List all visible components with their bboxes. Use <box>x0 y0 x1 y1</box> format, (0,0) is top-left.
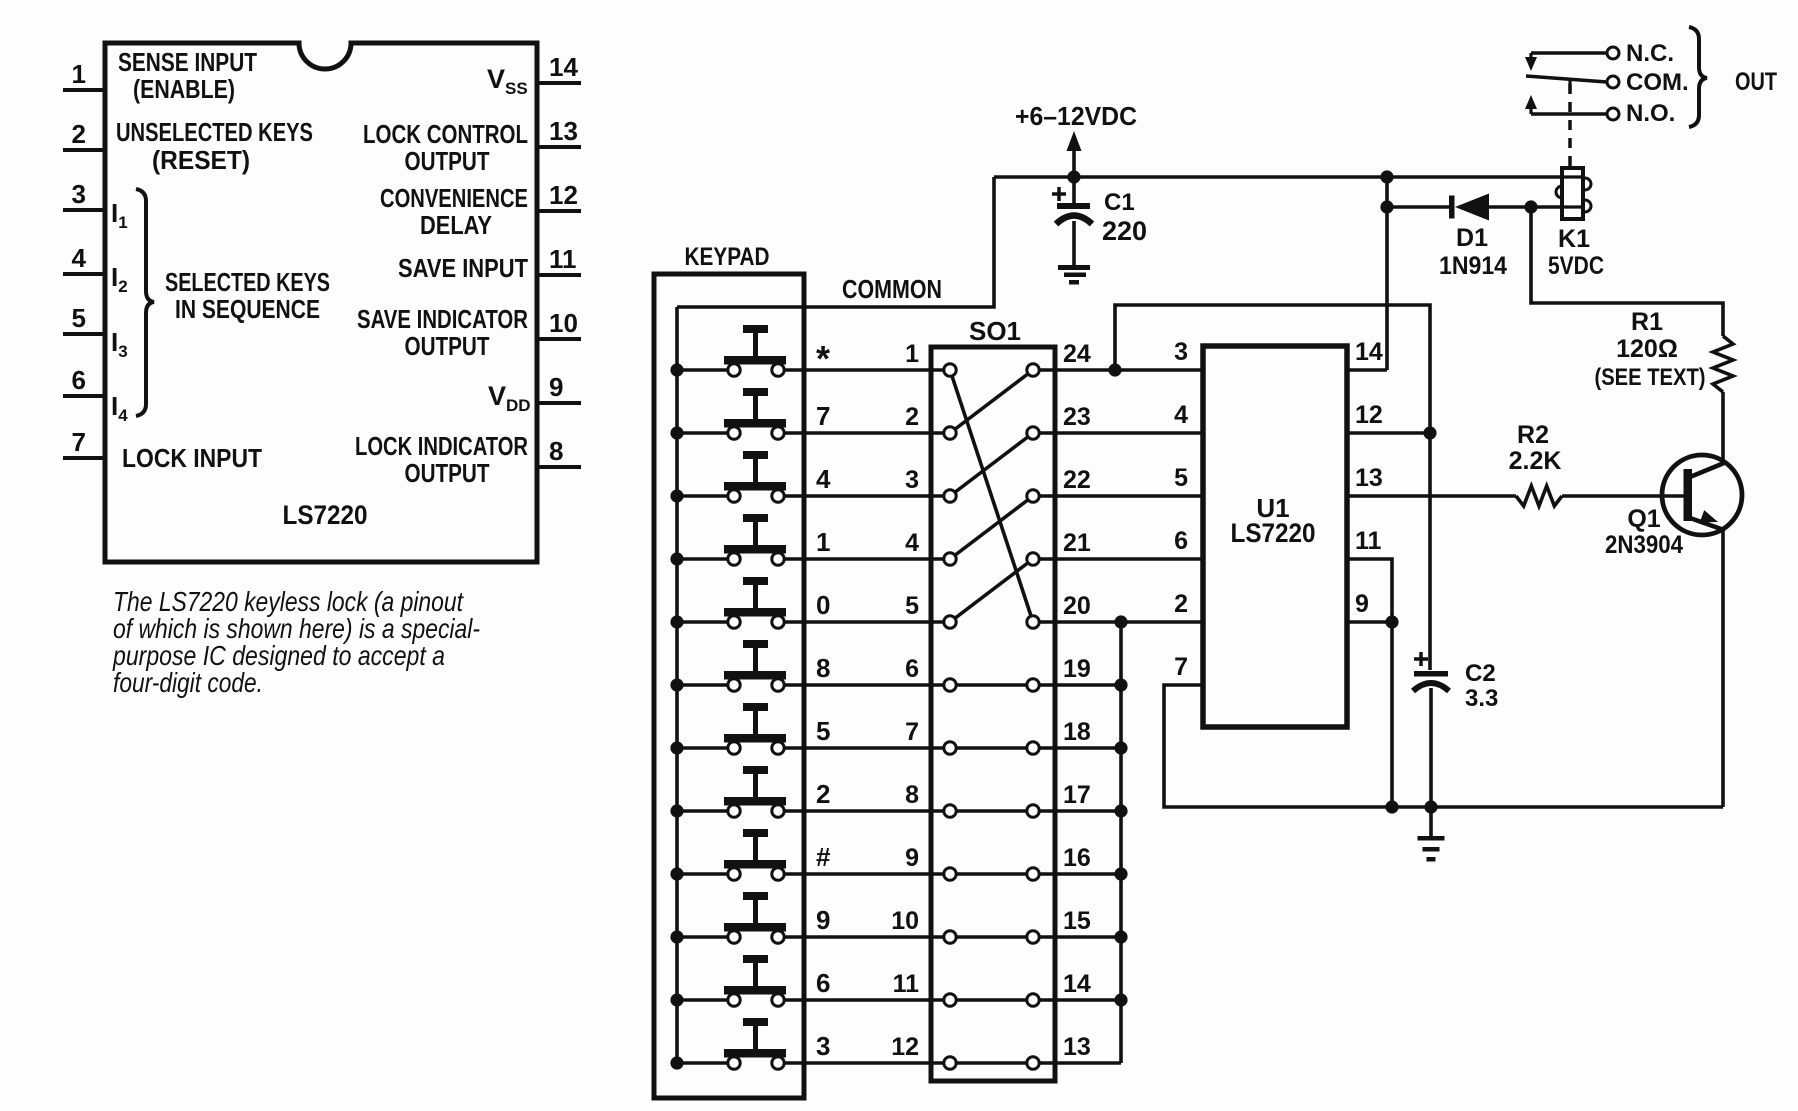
svg-text:2: 2 <box>72 119 86 149</box>
svg-text:15: 15 <box>1063 907 1091 935</box>
svg-text:120Ω: 120Ω <box>1616 335 1678 363</box>
svg-text:1N914: 1N914 <box>1439 252 1507 280</box>
label I1 <box>111 198 128 232</box>
pin 12 number <box>549 180 578 210</box>
SO1 pin 13 number <box>1063 1033 1091 1061</box>
label SENSE INPUT <box>118 47 257 77</box>
junction keypad bus row 5 <box>670 741 683 754</box>
key label 6 <box>816 968 830 998</box>
pin 4 lead <box>63 272 105 276</box>
SO1 pin 18 number <box>1063 718 1091 746</box>
label I4 <box>111 391 128 425</box>
svg-text:I4: I4 <box>111 391 128 425</box>
svg-text:18: 18 <box>1063 718 1091 746</box>
svg-text:four-digit code.: four-digit code. <box>113 667 263 698</box>
SO1 left pin 1 terminal <box>944 364 956 376</box>
junction bus row 18 <box>1114 741 1127 754</box>
label C2 <box>1465 660 1496 687</box>
svg-text:SENSE INPUT: SENSE INPUT <box>118 47 257 77</box>
SO1 pin 6 number <box>905 655 919 683</box>
label DELAY <box>420 210 492 240</box>
svg-text:COMMON: COMMON <box>842 274 942 304</box>
label K1 <box>1558 225 1590 253</box>
svg-text:UNSELECTED KEYS: UNSELECTED KEYS <box>116 117 313 147</box>
IC LS7220 pinout body with pin-1 notch <box>105 43 537 562</box>
key label # <box>816 842 831 872</box>
diode D1 <box>1387 194 1562 221</box>
key 2 left terminal <box>728 805 740 817</box>
label R1 see text <box>1595 364 1706 391</box>
label K1 5VDC <box>1548 252 1604 280</box>
terminal N.O. <box>1607 108 1619 120</box>
caption line <box>113 586 464 617</box>
key label 5 <box>816 716 830 746</box>
label SAVE INPUT <box>398 253 528 283</box>
key 6 left terminal <box>728 994 740 1006</box>
resistor R2 <box>1516 486 1562 506</box>
svg-text:7: 7 <box>816 401 830 431</box>
wire U1 pin12 stub <box>1347 431 1430 435</box>
junction D1 K1 node <box>1524 200 1537 213</box>
svg-text:22: 22 <box>1063 466 1091 494</box>
wire SO1-18 to bus <box>1033 746 1121 750</box>
wire bus to key 0 left terminal <box>677 620 730 624</box>
SO1 pin 12 number <box>891 1033 919 1061</box>
junction keypad bus row 7 <box>670 426 683 439</box>
svg-text:13: 13 <box>549 116 578 146</box>
key * right terminal <box>772 364 784 376</box>
capacitor C1 <box>1052 177 1092 265</box>
SO1 left pin 8 terminal <box>944 805 956 817</box>
junction pin11 ground <box>1385 800 1398 813</box>
svg-text:12: 12 <box>1355 401 1383 429</box>
pushbutton key * plunger <box>724 325 786 365</box>
wire bus to key 6 left terminal <box>677 998 730 1002</box>
label +6-12VDC <box>1015 101 1137 131</box>
label SO1 <box>969 316 1021 346</box>
label IN SEQUENCE <box>175 294 320 324</box>
svg-text:LS7220: LS7220 <box>1231 518 1316 548</box>
U1 pin 4 number <box>1174 401 1188 429</box>
SO1 left pin 5 terminal <box>944 616 956 628</box>
svg-text:17: 17 <box>1063 781 1091 809</box>
SO1 pin 14 number <box>1063 970 1091 998</box>
label R1 <box>1631 308 1663 336</box>
key label 1 <box>816 527 830 557</box>
svg-text:16: 16 <box>1063 844 1091 872</box>
SO1 pin 3 number <box>905 466 919 494</box>
SO1 pin 4 number <box>905 529 919 557</box>
wire bus to key # left terminal <box>677 872 730 876</box>
SO1 pin 19 number <box>1063 655 1091 683</box>
wire supply drop to pin14 <box>1385 177 1389 370</box>
svg-text:14: 14 <box>1355 338 1383 366</box>
label SELECTED KEYS <box>165 267 330 297</box>
key 2 right terminal <box>772 805 784 817</box>
svg-text:7: 7 <box>905 718 919 746</box>
SO1 crosswire pin 3 to pin 23 <box>950 433 1033 496</box>
svg-text:9: 9 <box>1355 590 1369 618</box>
svg-text:R1: R1 <box>1631 308 1663 336</box>
wire SO1-13 to bus <box>1033 1061 1121 1065</box>
wire SO1-22 to U1-5 <box>1033 494 1203 498</box>
U1 pin 3 number <box>1174 338 1188 366</box>
wire SO1-24 to U1-3 <box>1033 368 1203 372</box>
svg-text:I2: I2 <box>111 262 128 296</box>
svg-text:LOCK INPUT: LOCK INPUT <box>122 443 262 473</box>
svg-text:12: 12 <box>891 1033 919 1061</box>
junction keypad bus row 1 <box>670 552 683 565</box>
pin 14 lead <box>537 81 581 85</box>
wire bus to key 2 left terminal <box>677 809 730 813</box>
brace OUT <box>1689 27 1707 127</box>
svg-text:6: 6 <box>72 365 86 395</box>
wire key 3 right terminal to SO1 <box>782 1061 1033 1065</box>
pin 9 lead <box>537 401 581 405</box>
svg-text:10: 10 <box>891 907 919 935</box>
svg-text:OUTPUT: OUTPUT <box>405 458 490 488</box>
junction keypad bus row 8 <box>670 678 683 691</box>
wire key 1 right terminal to SO1 <box>782 557 950 561</box>
pushbutton key 4 plunger <box>724 451 786 491</box>
svg-text:14: 14 <box>1063 970 1091 998</box>
pushbutton key 6 plunger <box>724 955 786 995</box>
svg-text:3: 3 <box>1174 338 1188 366</box>
svg-text:(ENABLE): (ENABLE) <box>133 74 235 104</box>
svg-text:COM.: COM. <box>1626 69 1689 96</box>
svg-text:SO1: SO1 <box>969 316 1021 346</box>
svg-text:OUT: OUT <box>1735 68 1777 96</box>
pin 2 number <box>72 119 86 149</box>
key 6 right terminal <box>772 994 784 1006</box>
svg-text:6: 6 <box>1174 527 1188 555</box>
svg-text:N.C.: N.C. <box>1626 40 1674 67</box>
key 8 left terminal <box>728 679 740 691</box>
pin 5 number <box>72 303 86 333</box>
key 4 right terminal <box>772 490 784 502</box>
U1 pin 6 number <box>1174 527 1188 555</box>
pushbutton key 5 plunger <box>724 703 786 743</box>
svg-text:4: 4 <box>905 529 919 557</box>
wire SO1-23 to U1-4 <box>1033 431 1203 435</box>
junction bus row 14 <box>1114 993 1127 1006</box>
pin 1 number <box>72 59 86 89</box>
key label 3 <box>816 1031 830 1061</box>
wire key 9 right terminal to SO1 <box>782 935 1033 939</box>
wire SO1-15 to bus <box>1033 935 1121 939</box>
SO1 crosswire pin 4 to pin 22 <box>950 496 1033 559</box>
SO1 left pin 12 terminal <box>944 1057 956 1069</box>
pushbutton key 2 plunger <box>724 766 786 806</box>
SO1 pin 24 number <box>1063 340 1091 368</box>
svg-text:11: 11 <box>1355 527 1382 555</box>
svg-text:23: 23 <box>1063 403 1091 431</box>
label COMMON <box>842 274 942 304</box>
junction keypad bus row 4 <box>670 489 683 502</box>
svg-text:11: 11 <box>893 970 920 998</box>
svg-text:DELAY: DELAY <box>420 210 492 240</box>
wire SO1-21 to U1-6 <box>1033 557 1203 561</box>
label (RESET) <box>152 145 250 175</box>
SO1 right pin 16 terminal <box>1027 868 1039 880</box>
wire U1 pin7 to ground rail <box>1164 685 1723 807</box>
SO1 right pin 18 terminal <box>1027 742 1039 754</box>
terminal N.C. <box>1607 47 1619 59</box>
svg-text:LS7220: LS7220 <box>283 500 368 530</box>
label I2 <box>111 262 128 296</box>
pin 9 number <box>549 372 563 402</box>
wire SO1-20 to U1-2 <box>1033 620 1203 624</box>
pushbutton key # plunger <box>724 829 786 869</box>
svg-text:12: 12 <box>549 180 578 210</box>
SO1 pin 23 number <box>1063 403 1091 431</box>
keypad common bus <box>675 307 679 1063</box>
svg-text:OUTPUT: OUTPUT <box>405 331 490 361</box>
svg-text:1: 1 <box>72 59 86 89</box>
relay coil K1 <box>1556 168 1591 219</box>
key label 4 <box>816 464 831 494</box>
label R2 2.2K <box>1509 447 1562 475</box>
pin 3 lead <box>63 208 105 212</box>
pin 2 lead <box>63 148 105 152</box>
wire key # right terminal to SO1 <box>782 872 1033 876</box>
wire U1 pin13 to R2 <box>1347 494 1516 498</box>
caption line <box>112 640 445 671</box>
label I3 <box>111 327 128 361</box>
key 1 right terminal <box>772 553 784 565</box>
label LOCK INPUT <box>122 443 262 473</box>
relay actuator dashed link <box>1568 84 1572 166</box>
key # left terminal <box>728 868 740 880</box>
SO1 left pin 2 terminal <box>944 427 956 439</box>
svg-text:5: 5 <box>905 592 919 620</box>
SO1 left pin 10 terminal <box>944 931 956 943</box>
keypad box <box>654 274 804 1098</box>
svg-text:3.3: 3.3 <box>1465 685 1498 712</box>
relay contact COM blade <box>1526 76 1607 91</box>
power rail +6-12VDC <box>994 175 1562 179</box>
SO1 right pin 20 terminal <box>1027 616 1039 628</box>
svg-text:19: 19 <box>1063 655 1091 683</box>
ground C2 <box>1418 836 1445 862</box>
key * left terminal <box>728 364 740 376</box>
wire key 7 right terminal to SO1 <box>782 431 950 435</box>
wire Q1 emitter to ground rail <box>1721 530 1725 807</box>
key label 2 <box>816 779 830 809</box>
svg-text:5: 5 <box>72 303 86 333</box>
svg-text:2: 2 <box>905 403 919 431</box>
svg-text:8: 8 <box>816 653 830 683</box>
SO1 pin 9 number <box>905 844 919 872</box>
wire node pin3 branch to pin12 <box>1115 305 1430 433</box>
SO1 pin 8 number <box>905 781 919 809</box>
SO1 right pin 17 terminal <box>1027 805 1039 817</box>
svg-text:IN SEQUENCE: IN SEQUENCE <box>175 294 320 324</box>
wire bus to key 1 left terminal <box>677 557 730 561</box>
SO1 left pin 11 terminal <box>944 994 956 1006</box>
pin 10 lead <box>537 337 581 341</box>
SO1 left pin 9 terminal <box>944 868 956 880</box>
svg-text:9: 9 <box>816 905 830 935</box>
svg-text:11: 11 <box>549 244 577 274</box>
key label 0 <box>816 590 830 620</box>
svg-text:LOCK INDICATOR: LOCK INDICATOR <box>355 431 528 461</box>
pin 8 lead <box>537 465 581 469</box>
pin 13 lead <box>537 145 581 149</box>
key 1 left terminal <box>728 553 740 565</box>
svg-text:VSS: VSS <box>487 64 528 98</box>
svg-text:KEYPAD: KEYPAD <box>685 243 770 271</box>
svg-text:R2: R2 <box>1517 421 1549 449</box>
SO1 left pin 3 terminal <box>944 490 956 502</box>
key 7 left terminal <box>728 427 740 439</box>
svg-text:2.2K: 2.2K <box>1509 447 1562 475</box>
label N.O. <box>1626 100 1675 127</box>
junction bus row 17 <box>1114 804 1127 817</box>
SO1 pin 15 number <box>1063 907 1091 935</box>
label KEYPAD <box>685 243 770 271</box>
pushbutton key 0 plunger <box>724 577 786 617</box>
pin 5 lead <box>63 332 105 336</box>
svg-text:SAVE INDICATOR: SAVE INDICATOR <box>357 304 528 334</box>
caption line <box>113 667 263 698</box>
key 7 right terminal <box>772 427 784 439</box>
label C1 220 <box>1102 216 1147 246</box>
supply arrow <box>1067 131 1082 177</box>
svg-text:3: 3 <box>72 179 86 209</box>
junction pin12 node <box>1423 426 1436 439</box>
SO1 right pin 14 terminal <box>1027 994 1039 1006</box>
junction bus row 19 <box>1114 678 1127 691</box>
label R1 120ohm <box>1616 335 1678 363</box>
junction bus top pin20 <box>1114 615 1127 628</box>
SO1 box <box>931 347 1055 1081</box>
label SAVE INDICATOR <box>357 304 528 334</box>
svg-text:SAVE INPUT: SAVE INPUT <box>398 253 528 283</box>
svg-text:9: 9 <box>549 372 563 402</box>
wire R2 to Q1 base <box>1562 494 1686 498</box>
ground C1 <box>1058 265 1090 285</box>
junction bus row 15 <box>1114 930 1127 943</box>
label OUTPUT pin13 <box>405 146 490 176</box>
svg-text:1: 1 <box>816 527 830 557</box>
key label 8 <box>816 653 830 683</box>
pin 7 lead <box>63 456 105 460</box>
label CONVENIENCE <box>380 183 528 213</box>
junction keypad bus row 2 <box>670 804 683 817</box>
pin 11 number <box>549 244 577 274</box>
terminal COM <box>1607 76 1619 88</box>
svg-text:13: 13 <box>1355 464 1383 492</box>
label C2 3.3 <box>1465 685 1498 712</box>
U1 pin 7 number <box>1174 653 1188 681</box>
svg-text:2N3904: 2N3904 <box>1605 531 1683 559</box>
junction rail branch <box>1380 170 1393 183</box>
pin 7 number <box>72 427 86 457</box>
svg-text:7: 7 <box>1174 653 1188 681</box>
SO1 right pin 23 terminal <box>1027 427 1039 439</box>
label OUTPUT pin8 <box>405 458 490 488</box>
SO1 right pin 22 terminal <box>1027 490 1039 502</box>
svg-text:0: 0 <box>816 590 830 620</box>
svg-text:5: 5 <box>816 716 830 746</box>
junction pin9/pin11 <box>1385 615 1398 628</box>
key 5 right terminal <box>772 742 784 754</box>
wire bus to key * left terminal <box>677 368 730 372</box>
wire bus to key 9 left terminal <box>677 935 730 939</box>
svg-text:8: 8 <box>549 436 563 466</box>
U1 pin 12 number <box>1355 401 1383 429</box>
svg-text:9: 9 <box>905 844 919 872</box>
label LOCK CONTROL <box>363 119 528 149</box>
svg-text:4: 4 <box>816 464 831 494</box>
junction rail C1 <box>1067 170 1080 183</box>
U1 pin 14 number <box>1355 338 1383 366</box>
pushbutton key 3 plunger <box>724 1018 786 1058</box>
key 4 left terminal <box>728 490 740 502</box>
SO1 pin 2 number <box>905 403 919 431</box>
svg-text:(RESET): (RESET) <box>152 145 250 175</box>
junction keypad bus row 6 <box>670 993 683 1006</box>
junction keypad bus row # <box>670 867 683 880</box>
junction keypad bus row 9 <box>670 930 683 943</box>
svg-text:24: 24 <box>1063 340 1091 368</box>
svg-text:(SEE TEXT): (SEE TEXT) <box>1595 364 1706 391</box>
SO1 pin 5 number <box>905 592 919 620</box>
key 5 left terminal <box>728 742 740 754</box>
label Q1 2N3904 <box>1605 531 1683 559</box>
label VDD <box>488 381 531 415</box>
wire SO1-19 to bus <box>1033 683 1121 687</box>
SO1 left pin 6 terminal <box>944 679 956 691</box>
U1 pin 9 number <box>1355 590 1369 618</box>
key 0 right terminal <box>772 616 784 628</box>
svg-text:8: 8 <box>905 781 919 809</box>
wire SO1-17 to bus <box>1033 809 1121 813</box>
key 3 left terminal <box>728 1057 740 1069</box>
label OUTPUT pin10 <box>405 331 490 361</box>
svg-text:*: * <box>816 338 830 379</box>
wire bus to key 7 left terminal <box>677 431 730 435</box>
SO1 right pin 19 terminal <box>1027 679 1039 691</box>
pushbutton key 7 plunger <box>724 388 786 428</box>
wire key 2 right terminal to SO1 <box>782 809 1033 813</box>
junction keypad bus row 0 <box>670 615 683 628</box>
SO1 right pin 24 terminal <box>1027 364 1039 376</box>
SO1 pin 7 number <box>905 718 919 746</box>
pushbutton key 1 plunger <box>724 514 786 554</box>
svg-text:K1: K1 <box>1558 225 1590 253</box>
pin 4 number <box>72 243 87 273</box>
transistor Q1 base bar <box>1684 469 1693 521</box>
svg-text:220: 220 <box>1102 216 1147 246</box>
key 8 right terminal <box>772 679 784 691</box>
wire key 5 right terminal to SO1 <box>782 746 1033 750</box>
U1 pin 11 number <box>1355 527 1382 555</box>
wire K1 to R1 <box>1531 207 1723 336</box>
svg-text:VDD: VDD <box>488 381 531 415</box>
wire SO1-16 to bus <box>1033 872 1121 876</box>
key 0 left terminal <box>728 616 740 628</box>
svg-text:20: 20 <box>1063 592 1091 620</box>
label OUT <box>1735 68 1777 96</box>
svg-text:3: 3 <box>905 466 919 494</box>
SO1 right pin 13 terminal <box>1027 1057 1039 1069</box>
pin 10 number <box>549 308 578 338</box>
label LOCK INDICATOR <box>355 431 528 461</box>
svg-text:21: 21 <box>1063 529 1091 557</box>
svg-text:6: 6 <box>816 968 830 998</box>
